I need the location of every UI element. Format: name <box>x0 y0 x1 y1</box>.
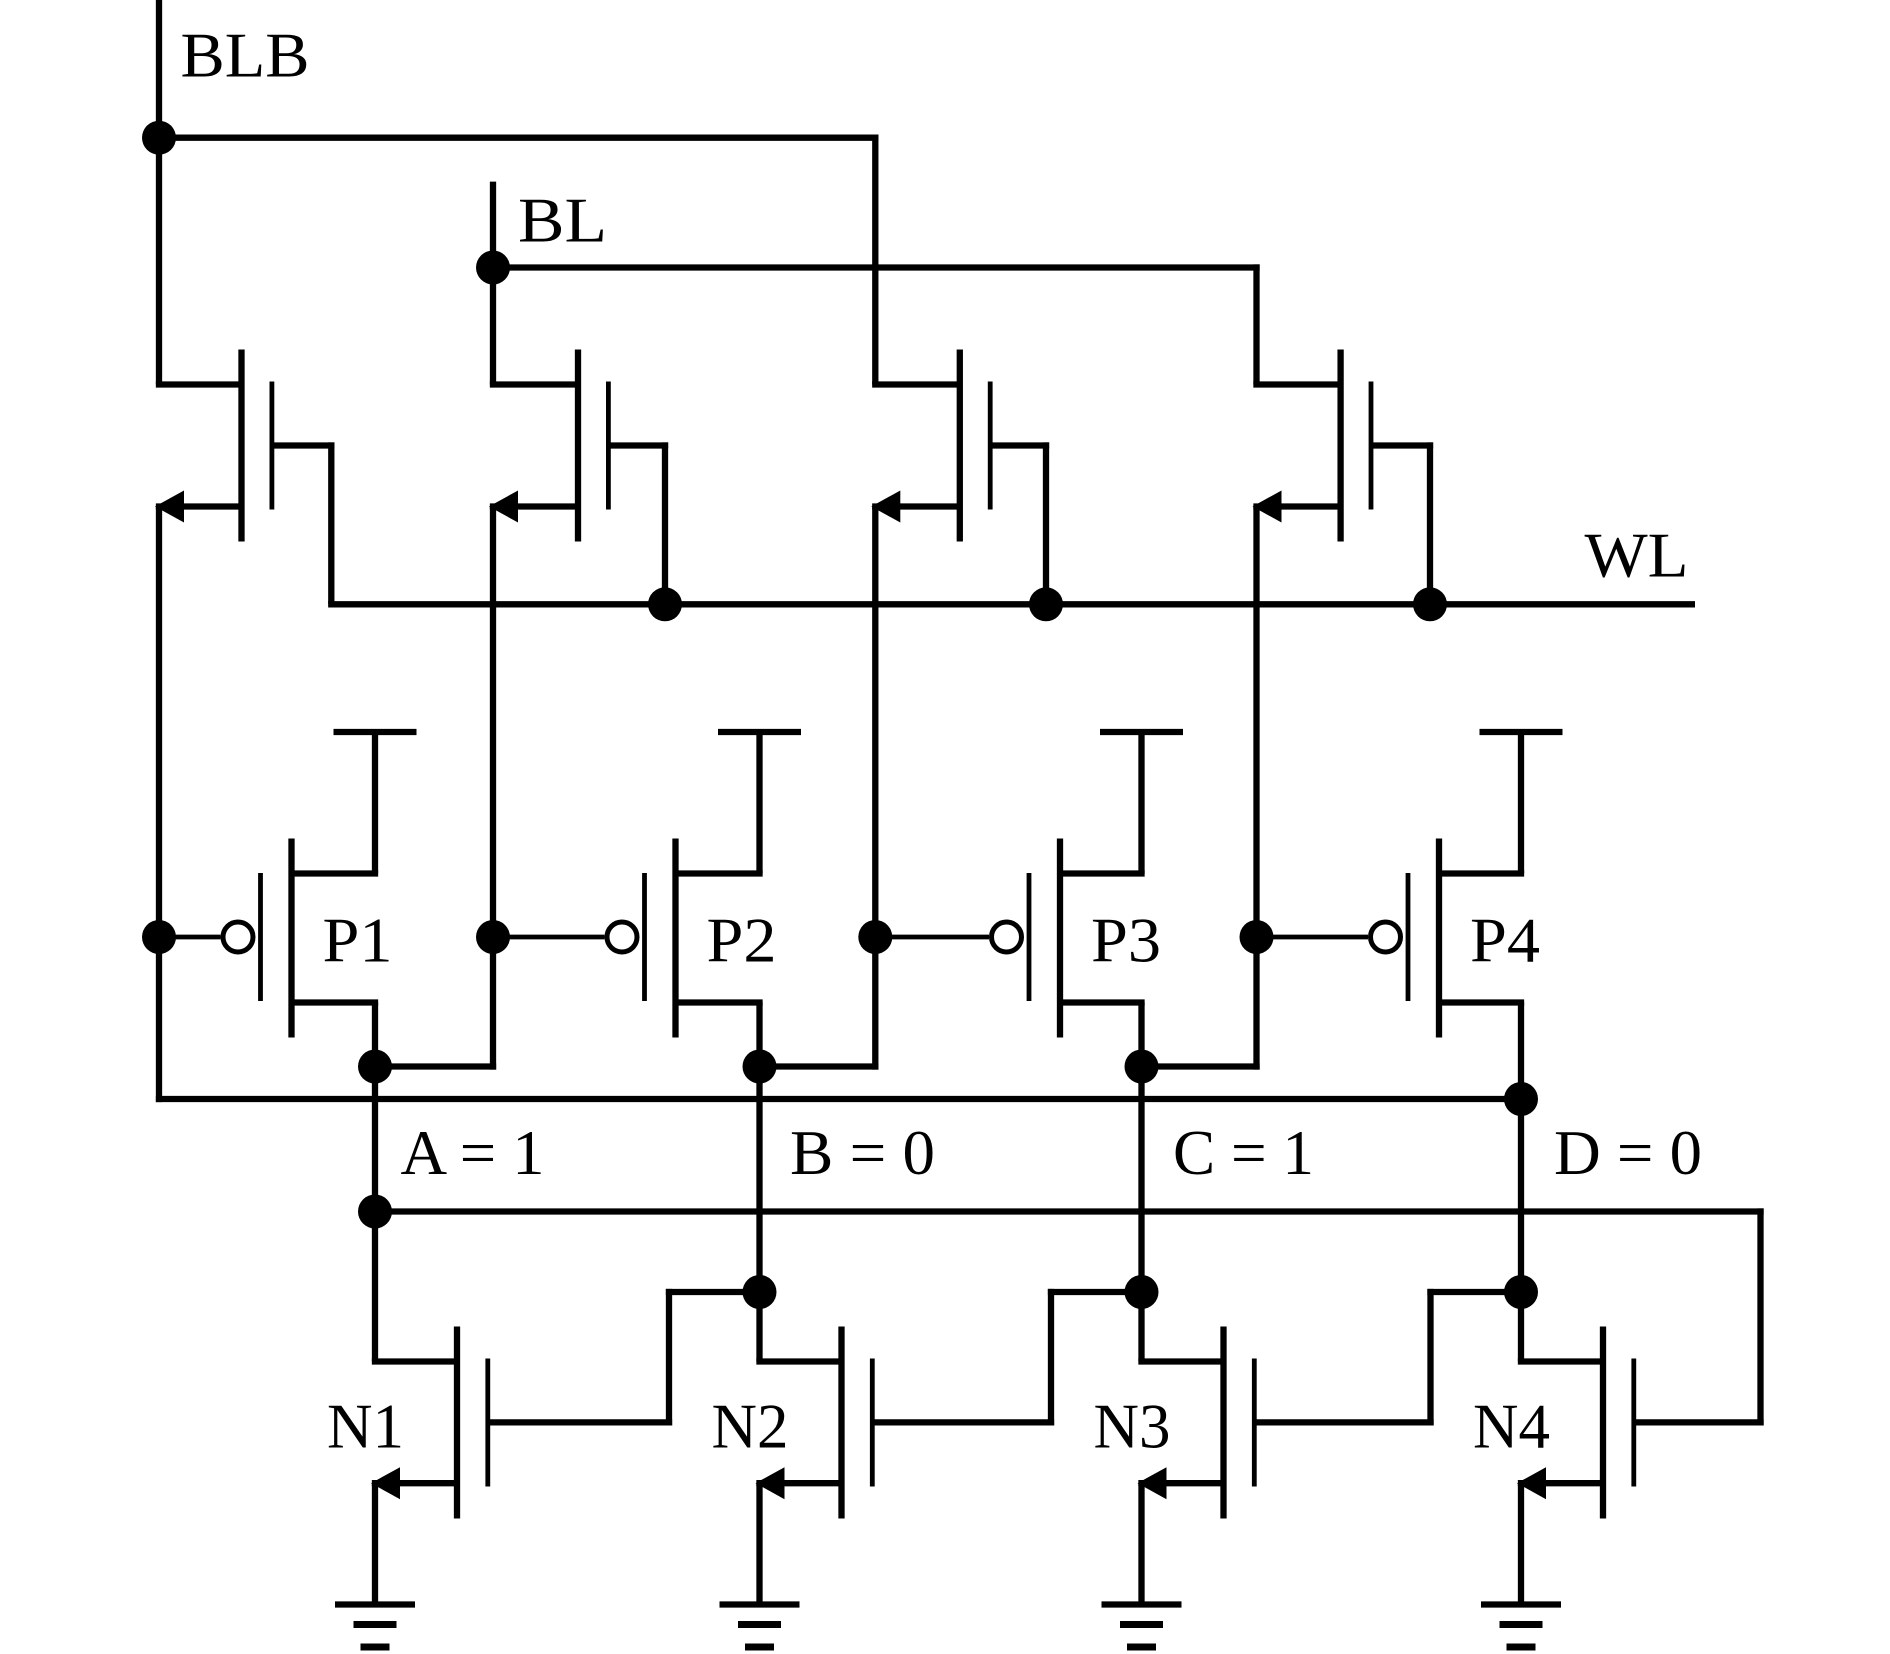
junction dot P4 gate node <box>1240 920 1274 954</box>
access nmos M4 gate bar <box>1369 382 1374 510</box>
pmos P3 drain drop <box>1138 1003 1144 1067</box>
pmos P2 supply bar (VDD) <box>718 729 801 735</box>
access nmos M4 source lead <box>1253 503 1340 509</box>
svg-text:BLB: BLB <box>181 20 310 91</box>
pmos P1 supply bar (VDD) <box>334 729 417 735</box>
nmos N2 drain lead <box>756 1358 841 1364</box>
junction dot WL gate M3 <box>1029 587 1063 621</box>
svg-text:B = 0: B = 0 <box>790 1117 935 1188</box>
wire feedback bus upper <box>156 1096 1521 1102</box>
nmos N3 source lead <box>1138 1480 1223 1486</box>
nmos N2 gate bar <box>870 1359 875 1487</box>
access nmos M3 gate wire to WL <box>1043 442 1049 604</box>
svg-text:N3: N3 <box>1094 1391 1171 1462</box>
wire storage col2 vertical (T2 source down) <box>490 507 496 1070</box>
access nmos M3 drain lead <box>872 381 960 387</box>
nmos N4 drain lead <box>1518 1358 1603 1364</box>
nmos N4 source arrow <box>1517 1467 1546 1499</box>
pmos P1 source lead <box>292 870 379 876</box>
svg-text:WL: WL <box>1585 520 1689 591</box>
ground N1 top bar <box>335 1601 415 1607</box>
access nmos M3 gate bar <box>988 382 993 510</box>
nmos N3 gate lead <box>1254 1419 1433 1425</box>
pmos P1 drain drop <box>372 1003 378 1067</box>
access nmos M3 source arrow <box>871 491 900 523</box>
wire storage col4 vertical (T4 source down) <box>1253 507 1259 1070</box>
svg-text:A = 1: A = 1 <box>401 1117 545 1188</box>
access nmos M2 gate bar <box>606 382 611 510</box>
pmos P4 gate wire <box>1257 935 1369 940</box>
pmos P4 gate bar <box>1406 873 1411 1001</box>
ground N4 top bar <box>1481 1601 1561 1607</box>
access nmos M1 gate wire to WL <box>328 442 334 604</box>
wire BL drop to M4 drain <box>1253 264 1259 384</box>
junction dot P1 drain node <box>358 1050 392 1084</box>
nmos N1 gate bar <box>485 1359 490 1487</box>
pmos P2 gate wire <box>493 935 605 940</box>
access nmos M2 gate wire to WL <box>662 442 668 604</box>
nmos N3 source stem to ground <box>1138 1483 1144 1604</box>
svg-text:D = 0: D = 0 <box>1554 1117 1702 1188</box>
junction dot P3 gate node <box>858 920 892 954</box>
pmos P3 gate wire <box>875 935 989 940</box>
svg-text:P2: P2 <box>707 905 777 976</box>
pmos P2 source lead <box>676 870 763 876</box>
junction dot P2 drain node <box>743 1050 777 1084</box>
access nmos M3 gate lead <box>990 442 1049 448</box>
nmos N2 source lead <box>756 1480 841 1486</box>
access nmos M1 source arrow <box>155 491 184 523</box>
access nmos M1 gate lead <box>272 442 335 448</box>
nmos N3 gate bar <box>1252 1359 1257 1487</box>
junction dot N3 gate node <box>1504 1275 1538 1309</box>
ground N1 middle bar <box>354 1621 397 1628</box>
nmos N3 drain lead <box>1138 1358 1223 1364</box>
svg-text:BL: BL <box>518 185 607 256</box>
nmos N3 channel bar <box>1220 1327 1226 1519</box>
pmos P4 drain lead <box>1439 999 1524 1005</box>
junction dot lower bus at O1 <box>358 1195 392 1229</box>
nmos N3 gate wire to node <box>1427 1289 1521 1295</box>
wire lower bus right drop <box>1757 1208 1763 1425</box>
wire node row to col2 <box>375 1063 496 1069</box>
ground N2 bottom bar <box>745 1644 774 1651</box>
nmos N2 source arrow <box>756 1467 785 1499</box>
access nmos M2 gate lead <box>608 442 668 448</box>
ground N4 bottom bar <box>1507 1644 1536 1651</box>
ground N3 top bar <box>1102 1601 1182 1607</box>
nmos N2 channel bar <box>838 1327 844 1519</box>
nmos N2 gate jog up <box>1048 1289 1054 1426</box>
junction dot BL <box>476 251 510 285</box>
pmos P2 source stem <box>756 732 762 874</box>
pmos P3 drain lead <box>1060 999 1145 1005</box>
nmos N4 source lead <box>1518 1480 1603 1486</box>
pmos P4 channel bar <box>1436 839 1442 1038</box>
nmos N1 channel bar <box>454 1327 460 1519</box>
access nmos M1 source lead <box>156 503 242 509</box>
svg-text:P4: P4 <box>1470 905 1540 976</box>
wire BLB drop to M3 drain <box>872 135 878 385</box>
access nmos M1 channel bar <box>238 350 244 542</box>
junction dot WL gate M4 <box>1413 587 1447 621</box>
net WL wordline <box>328 601 1695 607</box>
access nmos M2 channel bar <box>575 350 581 542</box>
ground N2 middle bar <box>738 1621 781 1628</box>
junction dot N2 gate node <box>1125 1275 1159 1309</box>
pmos P1 gate wire <box>159 935 221 940</box>
nmos N2 gate lead <box>872 1419 1054 1425</box>
pmos P2 drain lead <box>676 999 763 1005</box>
junction dot N1 gate node <box>743 1275 777 1309</box>
junction dot P2 gate node <box>476 920 510 954</box>
nmos N1 source lead <box>372 1480 457 1486</box>
wire storage col3 vertical (T3 source down) <box>872 507 878 1070</box>
ground N4 middle bar <box>1500 1621 1543 1628</box>
ground N2 top bar <box>720 1601 800 1607</box>
access nmos M4 channel bar <box>1337 350 1343 542</box>
access nmos M3 channel bar <box>957 350 963 542</box>
pmos P4 supply bar (VDD) <box>1480 729 1563 735</box>
access nmos M2 source arrow <box>489 491 518 523</box>
nmos N1 source arrow <box>371 1467 400 1499</box>
nmos N4 gate lead <box>1634 1419 1764 1425</box>
junction dot P1 gate node <box>142 920 176 954</box>
nmos N1 gate wire to node <box>666 1289 760 1295</box>
nmos N1 drain lead <box>372 1358 457 1364</box>
junction dot WL gate M2 <box>648 587 682 621</box>
access nmos M4 source arrow <box>1253 491 1282 523</box>
node BL bitline vertical wire <box>490 182 496 385</box>
wire node row to col4 <box>1142 1063 1260 1069</box>
access nmos M4 drain lead <box>1253 381 1340 387</box>
svg-text:N2: N2 <box>712 1391 789 1462</box>
pmos P1 gate bubble <box>223 922 253 952</box>
ground N3 middle bar <box>1120 1621 1163 1628</box>
nmos N4 channel bar <box>1600 1327 1606 1519</box>
pmos P3 source lead <box>1060 870 1145 876</box>
pmos P2 drain drop <box>756 1003 762 1067</box>
pmos P4 source stem <box>1518 732 1524 874</box>
nmos N4 source stem to ground <box>1518 1483 1524 1604</box>
pmos P2 channel bar <box>672 839 678 1038</box>
svg-text:N1: N1 <box>327 1391 404 1462</box>
pmos P2 gate bar <box>642 873 647 1001</box>
wire lower bus <box>375 1208 1764 1214</box>
svg-text:P1: P1 <box>323 905 393 976</box>
pmos P4 drain drop to feedback bus <box>1518 1003 1524 1100</box>
wire node row to col3 <box>760 1063 879 1069</box>
nmos N3 gate jog up <box>1427 1289 1433 1426</box>
wire O3 vertical (P3 drain to N3 drain) <box>1138 1067 1144 1362</box>
access nmos M4 gate lead <box>1371 442 1433 448</box>
wire BLB horizontal <box>156 135 879 141</box>
pmos P3 gate bubble <box>992 922 1022 952</box>
nmos N4 gate bar <box>1631 1359 1636 1487</box>
wire BL horizontal <box>493 264 1260 270</box>
svg-text:C = 1: C = 1 <box>1173 1117 1314 1188</box>
svg-text:N4: N4 <box>1473 1391 1550 1462</box>
access nmos M1 drain lead <box>156 381 242 387</box>
pmos P1 channel bar <box>288 839 294 1038</box>
nmos N1 gate lead <box>488 1419 672 1425</box>
pmos P1 source stem <box>372 732 378 874</box>
access nmos M2 drain lead <box>490 381 578 387</box>
pmos P3 source stem <box>1138 732 1144 874</box>
pmos P1 gate bar <box>258 873 263 1001</box>
access nmos M1 gate bar <box>269 382 274 510</box>
junction dot P3 drain node <box>1125 1050 1159 1084</box>
junction dot P4 drain on bus <box>1504 1082 1538 1116</box>
pmos P2 gate bubble <box>607 922 637 952</box>
nmos N2 source stem to ground <box>756 1483 762 1604</box>
access nmos M3 source lead <box>872 503 960 509</box>
pmos P3 supply bar (VDD) <box>1100 729 1183 735</box>
pmos P3 gate bar <box>1027 873 1032 1001</box>
wire O2 vertical (P2 drain to N2 drain) <box>756 1067 762 1362</box>
access nmos M2 source lead <box>490 503 578 509</box>
svg-text:P3: P3 <box>1091 905 1161 976</box>
pmos P4 source lead <box>1439 870 1524 876</box>
node BLB bitline-bar vertical wire <box>156 0 162 385</box>
pmos P3 channel bar <box>1057 839 1063 1038</box>
nmos N3 source arrow <box>1138 1467 1167 1499</box>
wire node storage col1 vertical (T1 source to bus) <box>156 507 162 1103</box>
pmos P1 drain lead <box>292 999 379 1005</box>
pmos P4 gate bubble <box>1371 922 1401 952</box>
junction dot BLB <box>142 121 176 155</box>
ground N1 bottom bar <box>361 1644 390 1651</box>
access nmos M4 gate wire to WL <box>1427 442 1433 604</box>
nmos N1 source stem to ground <box>372 1483 378 1604</box>
nmos N2 gate wire to node <box>1048 1289 1142 1295</box>
nmos N1 gate jog up <box>666 1289 672 1426</box>
wire O1 vertical (P1 drain to N1 drain) <box>372 1067 378 1362</box>
ground N3 bottom bar <box>1127 1644 1156 1651</box>
wire O4 vertical (bus to N4 drain) <box>1518 1099 1524 1362</box>
